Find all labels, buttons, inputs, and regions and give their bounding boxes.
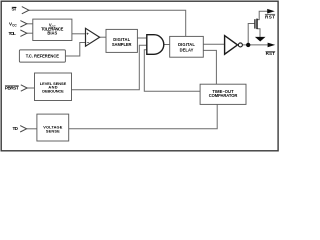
svg-text:DIGITAL: DIGITAL bbox=[113, 37, 130, 42]
svg-text:RST: RST bbox=[265, 14, 275, 19]
svg-text:SENSE: SENSE bbox=[46, 128, 60, 133]
svg-text:DIGITAL: DIGITAL bbox=[178, 42, 195, 47]
svg-text:−: − bbox=[87, 40, 90, 45]
svg-text:T.C. REFERENCE: T.C. REFERENCE bbox=[26, 54, 59, 59]
svg-text:SAMPLER: SAMPLER bbox=[112, 42, 132, 47]
svg-text:COMPARATOR: COMPARATOR bbox=[209, 93, 238, 98]
svg-text:BIAS: BIAS bbox=[47, 30, 57, 35]
svg-text:TD: TD bbox=[12, 126, 18, 131]
svg-text:DEBOUNCE: DEBOUNCE bbox=[42, 88, 64, 93]
svg-text:DELAY: DELAY bbox=[180, 47, 194, 52]
svg-text:TOL: TOL bbox=[9, 31, 16, 36]
